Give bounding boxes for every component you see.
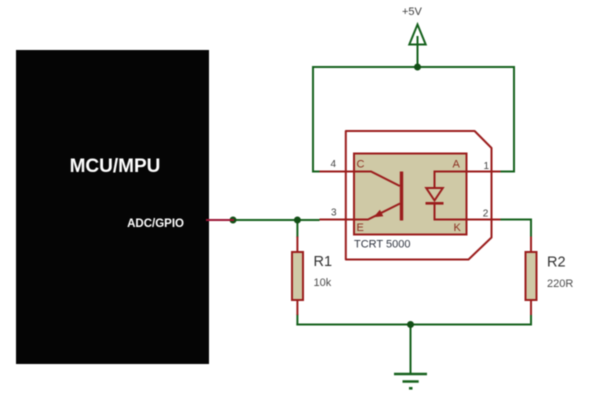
svg-text:2: 2 — [483, 209, 489, 220]
svg-text:E: E — [357, 222, 364, 234]
svg-text:3: 3 — [331, 208, 337, 219]
svg-text:K: K — [454, 222, 462, 234]
svg-text:C: C — [357, 159, 365, 171]
svg-text:220R: 220R — [547, 278, 573, 290]
svg-text:ADC/GPIO: ADC/GPIO — [127, 218, 184, 230]
svg-text:4: 4 — [331, 159, 337, 170]
svg-text:R1: R1 — [314, 254, 333, 270]
svg-text:A: A — [453, 159, 461, 171]
svg-text:MCU/MPU: MCU/MPU — [70, 156, 161, 177]
svg-text:10k: 10k — [314, 277, 332, 289]
svg-text:R2: R2 — [547, 255, 566, 271]
svg-text:1: 1 — [484, 161, 490, 172]
svg-text:+5V: +5V — [402, 6, 423, 18]
svg-text:TCRT 5000: TCRT 5000 — [354, 239, 410, 251]
